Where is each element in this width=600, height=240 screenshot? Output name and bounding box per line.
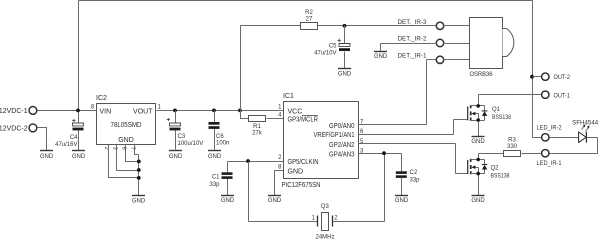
- svg-text:GND: GND: [221, 198, 235, 204]
- svg-text:GND: GND: [72, 154, 86, 160]
- capacitor C5: [314, 26, 350, 69]
- svg-text:LED_IR-1: LED_IR-1: [537, 161, 563, 167]
- resistor R2: [301, 10, 318, 30]
- svg-text:1: 1: [312, 215, 316, 221]
- wire 5V rail VOUT to VCC: [157, 110, 284, 112]
- svg-text:C1: C1: [212, 175, 220, 181]
- svg-text:IC2: IC2: [96, 95, 107, 102]
- svg-text:1: 1: [158, 105, 162, 111]
- svg-text:GND: GND: [288, 169, 304, 176]
- wire 5V top rail: [241, 25, 437, 27]
- svg-text:8: 8: [278, 165, 282, 171]
- svg-text:IC1: IC1: [283, 93, 294, 100]
- wire IC1 pin7 to DET_IR-1: [359, 60, 437, 125]
- connector 12VDC-1: [29, 107, 37, 115]
- svg-text:BSS138: BSS138: [491, 174, 511, 180]
- connector OUT-1: [542, 91, 549, 98]
- svg-text:VOUT: VOUT: [133, 109, 153, 116]
- capacitor C6: [209, 111, 230, 150]
- connector DET._IR-1: [436, 56, 443, 63]
- connector OUT-2: [542, 73, 549, 80]
- svg-text:GND: GND: [395, 198, 409, 204]
- connector DET._IR-2: [436, 39, 443, 46]
- transistor Q1 BSS138: [468, 95, 512, 137]
- svg-text:Q2: Q2: [491, 165, 500, 171]
- svg-text:GND: GND: [40, 154, 54, 160]
- connector DET._IR-3: [436, 22, 443, 29]
- wire DET2 to ground: [381, 44, 437, 52]
- wire R1 branch: [241, 111, 284, 119]
- wire IC1 pin3: [359, 154, 402, 172]
- svg-text:Q3: Q3: [321, 204, 330, 210]
- svg-text:47u/10V: 47u/10V: [314, 51, 336, 57]
- wire 12V top rail: [79, 1, 542, 138]
- wire IC1 pin6 to Q1 gate: [359, 120, 468, 135]
- svg-text:100n: 100n: [216, 141, 229, 147]
- capacitor C1: [209, 162, 232, 196]
- capacitor C3: [167, 111, 204, 150]
- svg-text:C5: C5: [329, 44, 337, 50]
- svg-text:R3: R3: [508, 137, 516, 143]
- svg-text:24MHz: 24MHz: [315, 234, 334, 240]
- svg-text:GND: GND: [208, 154, 222, 160]
- capacitor C4: [55, 119, 83, 148]
- ground (Q2): [472, 195, 485, 197]
- wire R3 to LED_IR-1: [522, 153, 542, 155]
- node 12V junction: [76, 109, 80, 113]
- wire crystal right riser: [333, 154, 385, 222]
- svg-text:4: 4: [278, 113, 282, 119]
- wire 12VDC-1 feed: [38, 110, 97, 112]
- svg-text:C6: C6: [216, 134, 224, 140]
- svg-text:R1: R1: [253, 124, 261, 130]
- LED SFH4544: [572, 121, 599, 143]
- svg-text:C4: C4: [70, 135, 78, 141]
- wire crystal left riser: [249, 162, 318, 222]
- svg-text:GND: GND: [374, 54, 388, 60]
- wire 12VDC-2 to ground: [38, 128, 47, 151]
- svg-text:DET._IR-2: DET._IR-2: [398, 37, 428, 43]
- wire DET2 to OSRB36: [444, 43, 470, 45]
- ground (C4): [72, 150, 85, 152]
- node IC2 pin3 join: [137, 168, 141, 172]
- IC1 PIC12F675: [278, 93, 364, 189]
- svg-text:VCC: VCC: [288, 108, 303, 115]
- node IC2 pin6 join: [137, 160, 141, 164]
- svg-text:2: 2: [334, 215, 338, 221]
- wire 12V left riser: [78, 1, 80, 151]
- svg-text:12VDC-1: 12VDC-1: [0, 108, 28, 115]
- node crystal left junction: [246, 159, 250, 163]
- IC2 voltage regulator 78L05: [91, 95, 162, 145]
- node C6 junction: [212, 109, 216, 113]
- svg-text:33p: 33p: [209, 182, 220, 188]
- ground (C2): [395, 195, 408, 197]
- svg-text:GND: GND: [471, 139, 485, 145]
- svg-text:BSS138: BSS138: [492, 115, 512, 121]
- svg-text:47u/16V: 47u/16V: [55, 142, 77, 148]
- wire DET3 to OSRB36: [444, 25, 470, 27]
- node C5 junction: [343, 24, 347, 28]
- transistor Q2 BSS138: [468, 154, 510, 196]
- ground (C6): [208, 150, 221, 152]
- wire 5V riser to top rail: [240, 26, 242, 111]
- wire Q2 drain to R3: [479, 153, 504, 155]
- svg-text:PIC12F675SN: PIC12F675SN: [282, 182, 321, 189]
- svg-text:DET._IR-1: DET._IR-1: [398, 53, 428, 59]
- svg-text:GP0/AN0: GP0/AN0: [329, 123, 355, 130]
- connector LED_IR-2: [542, 134, 549, 141]
- node OUT-2 junction: [530, 75, 534, 79]
- svg-text:GP2/AN2: GP2/AN2: [329, 142, 355, 149]
- svg-text:GND: GND: [338, 72, 352, 78]
- ground (IC2): [132, 195, 145, 197]
- wire IC1 pin5 to Q2 gate: [359, 144, 468, 174]
- wire Q1 drain to OUT-1: [479, 94, 542, 96]
- resistor R3: [504, 137, 521, 156]
- svg-text:C2: C2: [410, 170, 418, 176]
- ground (IC1): [268, 195, 281, 197]
- wire LED cathode loop: [550, 138, 598, 154]
- svg-text:8: 8: [91, 105, 95, 111]
- wire IC2 ground pins: [109, 145, 139, 196]
- svg-text:12VDC-2: 12VDC-2: [0, 125, 28, 132]
- ground (Q1): [472, 136, 485, 138]
- node pin3 crystal junction: [382, 151, 386, 155]
- svg-text:GND: GND: [471, 198, 485, 204]
- svg-text:GND: GND: [118, 137, 134, 144]
- wire DET1 to OSRB36: [444, 59, 470, 61]
- svg-text:GND: GND: [169, 154, 183, 160]
- svg-text:27k: 27k: [252, 130, 263, 136]
- svg-text:R2: R2: [305, 10, 313, 16]
- IR receiver OSRB36: [470, 18, 514, 78]
- svg-text:33p: 33p: [410, 178, 421, 184]
- capacitor C2: [396, 170, 420, 195]
- ground (C5): [338, 68, 351, 70]
- wire OUT-2 stub: [533, 76, 542, 78]
- svg-text:OSRB36: OSRB36: [470, 72, 494, 78]
- resistor R1: [249, 116, 266, 137]
- svg-text:Q1: Q1: [492, 107, 501, 113]
- svg-text:GND: GND: [132, 199, 146, 205]
- svg-text:100u/10V: 100u/10V: [178, 141, 204, 147]
- connector 12VDC-2: [29, 124, 37, 132]
- wire IC1 pin8 to ground: [275, 171, 284, 196]
- node C3 junction: [173, 109, 177, 113]
- crystal Q3 24MHz: [312, 204, 339, 240]
- svg-text:GND: GND: [268, 198, 282, 204]
- svg-text:27: 27: [306, 17, 313, 23]
- node 5V riser junction: [238, 109, 242, 113]
- ground (C1): [221, 195, 234, 197]
- svg-text:GP5/CLKIN: GP5/CLKIN: [288, 159, 319, 166]
- ground (C3): [169, 150, 182, 152]
- wire IC1 pin2 clkin: [228, 161, 284, 163]
- svg-text:1: 1: [278, 105, 282, 111]
- svg-text:GP3/MCLR: GP3/MCLR: [288, 117, 319, 124]
- svg-text:VIN: VIN: [100, 109, 112, 116]
- wire LED_IR-2 to LED anode: [550, 137, 579, 139]
- svg-text:OUT-1: OUT-1: [554, 93, 571, 99]
- svg-text:330: 330: [507, 144, 518, 150]
- ground (12VDC-2): [40, 150, 53, 152]
- connector LED_IR-1: [542, 150, 549, 157]
- svg-text:C3: C3: [178, 134, 186, 140]
- svg-text:GP4/AN3: GP4/AN3: [329, 151, 355, 158]
- ground (DET2): [374, 51, 387, 53]
- svg-text:2: 2: [278, 155, 282, 161]
- svg-text:SFH4544: SFH4544: [572, 121, 599, 127]
- node IC2 pin2 join: [137, 176, 141, 180]
- svg-text:OUT-2: OUT-2: [554, 75, 571, 81]
- svg-text:LED_IR-2: LED_IR-2: [537, 126, 563, 132]
- svg-text:78L05SMD: 78L05SMD: [111, 122, 142, 129]
- svg-text:VREF/GP1/AN1: VREF/GP1/AN1: [314, 132, 355, 139]
- svg-text:DET._IR-3: DET._IR-3: [398, 20, 428, 26]
